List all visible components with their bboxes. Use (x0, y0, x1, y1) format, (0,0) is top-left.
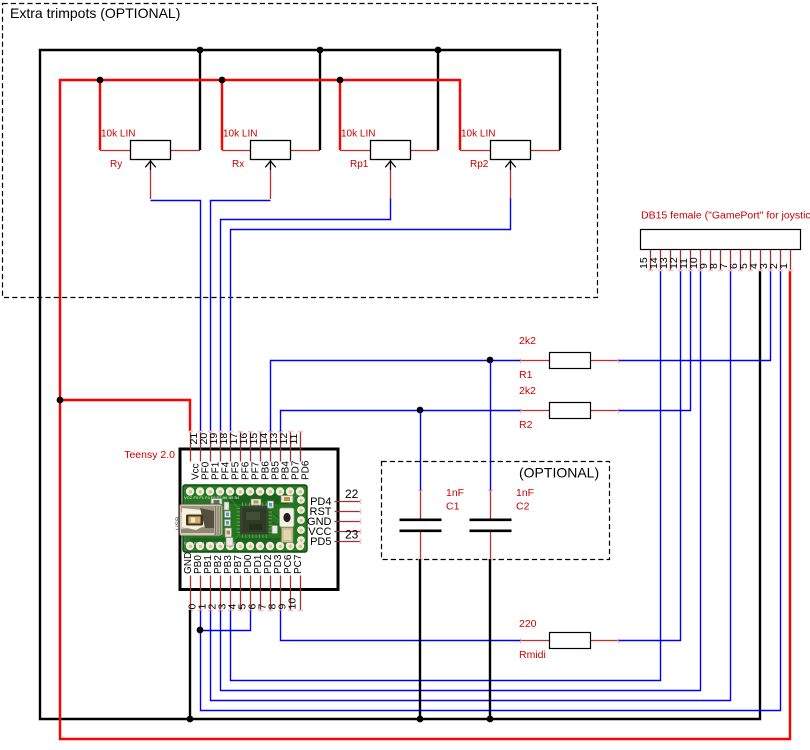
junction on Vcc bus at Ry (97, 77, 104, 84)
pin stub bottom PD2 (270, 576, 272, 611)
junction on GND bus at Rp1 (435, 47, 442, 54)
wire: Teensy PB5 to R1 left (271, 361, 521, 432)
pin stub bottom GND (190, 576, 192, 611)
pin stub DB15 pin 10 (700, 250, 702, 271)
svg-text:DB15 female ("GamePort" for jo: DB15 female ("GamePort" for joystick) (641, 210, 810, 222)
Teensy 2.0 PCB photo (drawn) (175, 485, 307, 552)
trimpot Rp1 (10k LIN trimpot pot1) (340, 141, 438, 200)
trimpot Ry (10k LIN trimpot Y axis) (100, 141, 200, 200)
svg-text:Rmidi: Rmidi (519, 649, 546, 661)
svg-text:(OPTIONAL): (OPTIONAL) (519, 465, 599, 481)
wire: C1 to GND bus (419, 559, 421, 719)
pin stub DB15 pin 9 (710, 250, 712, 271)
svg-text:2k2: 2k2 (519, 385, 536, 397)
wire: R1 right to DB15 pin 3 (619, 271, 771, 361)
svg-text:10: 10 (287, 598, 299, 610)
wire: R1 net down to C2 (490, 361, 492, 491)
svg-text:Teensy 2.0: Teensy 2.0 (124, 449, 175, 461)
wire: PB3 to DB15 pin 14 (231, 271, 661, 681)
pin stub top PB4 (280, 432, 282, 462)
wire: Vcc drop to trimpot Rx (221, 80, 223, 150)
wire: PB2 to DB15 pin 10 (221, 271, 701, 691)
resistor R2 2k2 (pullup Y axis) (520, 403, 619, 419)
junction GND bus at C1 (417, 716, 424, 723)
junction on GND bus at Ry (197, 47, 204, 54)
wire: Rp1 wiper to Teensy PF4 (221, 199, 391, 432)
svg-text:1nF: 1nF (446, 487, 464, 499)
wire: Rx wiper to Teensy PF1 (211, 201, 271, 432)
pin stub bottom PB3 (230, 576, 232, 611)
svg-text:USB: USB (175, 517, 182, 530)
wire: Vcc bus (top horizontal, left vertical, bottom horizontal, to DB15 pin 1) (60, 80, 790, 739)
connector J1 DB15 female GamePort (641, 230, 801, 250)
pin stub bottom PC7 (300, 576, 302, 611)
pin stub DB15 pin 7 (730, 250, 732, 271)
svg-text:10k LIN: 10k LIN (461, 129, 495, 140)
wire: Teensy GND to GND bus (189, 610, 191, 719)
pin stub DB15 pin 11 (690, 250, 692, 271)
wire: Rmidi right to DB15 pin 12 (619, 271, 681, 641)
wire: PD0 joins PB0 net (201, 611, 251, 631)
pin stub top Vcc (190, 432, 192, 462)
pin stub bottom PB0 (200, 576, 202, 611)
pin stub DB15 pin 12 (680, 250, 682, 271)
pin stub top PD6 (300, 432, 302, 462)
pin stub top PF0 (200, 432, 202, 462)
svg-text:R1: R1 (519, 369, 533, 381)
pin stub right RST (335, 511, 361, 513)
svg-text:1: 1 (778, 263, 790, 269)
pin stub DB15 pin 1 (790, 250, 792, 271)
pin stub DB15 pin 3 (770, 250, 772, 271)
wire: Teensy PD3 to Rmidi left (281, 611, 521, 641)
pin stub bottom PD3 (280, 576, 282, 611)
pin stub top PD7 (290, 432, 292, 462)
pin stub right PD4 (335, 501, 361, 503)
svg-text:Rx: Rx (232, 159, 244, 170)
svg-text:PD5: PD5 (310, 536, 331, 548)
pin stub bottom PB1 (210, 576, 212, 611)
pin stub DB15 pin 15 (650, 250, 652, 271)
wire: Rp2 wiper to Teensy PF5 (231, 199, 511, 432)
svg-text:2k2: 2k2 (519, 335, 536, 347)
pin stub top PF6 (240, 432, 242, 462)
pin stub top PB6 (260, 432, 262, 462)
wire: Vcc drop to trimpot Rp1 (339, 80, 341, 150)
wire: GND drop to trimpot Rx (319, 50, 321, 150)
pin stub DB15 pin 8 (720, 250, 722, 271)
junction GND bus at Teensy GND (187, 716, 194, 723)
pin stub top PF7 (250, 432, 252, 462)
svg-text:Ry: Ry (110, 159, 122, 170)
svg-text:Rp1: Rp1 (350, 159, 369, 170)
trimpot Rp2 (10k LIN trimpot pot2) (460, 141, 560, 200)
svg-text:10k LIN: 10k LIN (101, 129, 135, 140)
wire: Teensy PB4 to R2 left (281, 411, 521, 432)
pin stub top PF5 (230, 432, 232, 462)
svg-text:C1: C1 (446, 501, 460, 513)
pin stub DB15 pin 5 (750, 250, 752, 271)
trimpot Rx (10k LIN trimpot X axis) (222, 141, 320, 200)
wire: GND drop to trimpot Ry (199, 50, 201, 150)
pin stub DB15 pin 13 (670, 250, 672, 271)
wire: R2 right to DB15 pin 11 (619, 271, 691, 411)
pin stub bottom PB2 (220, 576, 222, 611)
svg-text:1nF: 1nF (516, 487, 534, 499)
capacitor C1 1nF (Y axis filter) (400, 490, 442, 560)
wire: PB1 to DB15 pin 7 (211, 271, 731, 701)
junction on Vcc bus at Rx (219, 77, 226, 84)
Teensy 2.0 symbol box U1 (180, 449, 338, 590)
svg-text:10k LIN: 10k LIN (341, 129, 375, 140)
junction R1 net / C2 (487, 357, 494, 364)
pin stub top PF4 (220, 432, 222, 462)
pin stub DB15 pin 14 (660, 250, 662, 271)
pin stub bottom PC6 (290, 576, 292, 611)
wire: Vcc drop to trimpot Ry (99, 80, 101, 150)
junction R2 net / C1 (417, 407, 424, 414)
pin stub bottom PD1 (260, 576, 262, 611)
pin stub right PD5 (335, 541, 361, 543)
svg-text:Rp2: Rp2 (470, 159, 489, 170)
junction GND bus at C2 (487, 716, 494, 723)
dashed box: Extra trimpots (OPTIONAL) (3, 4, 598, 298)
junction on Vcc vertical (57, 397, 64, 404)
pin stub bottom PD0 (250, 576, 252, 611)
pin stub DB15 pin 2 (780, 250, 782, 271)
svg-text:10k LIN: 10k LIN (223, 129, 257, 140)
wire: Ry wiper to Teensy PF0 (151, 201, 201, 432)
junction on GND bus at Rx (317, 47, 324, 54)
wire: GND bus (top horizontal, left vertical, bottom horizontal, to DB15 pin 4) (40, 50, 760, 719)
pin stub right GND (335, 521, 361, 523)
capacitor C2 1nF (X axis filter) (470, 490, 512, 560)
svg-text:R2: R2 (519, 419, 533, 431)
svg-text:C2: C2 (516, 501, 530, 513)
wire: C2 to GND bus (489, 559, 491, 719)
svg-text:PC7: PC7 (293, 554, 304, 574)
pin stub right VCC (335, 531, 361, 533)
junction on Vcc bus at Rp1 (337, 77, 344, 84)
junction PB0/PD0 (197, 627, 204, 634)
svg-text:11: 11 (288, 433, 300, 444)
pin stub DB15 pin 6 (740, 250, 742, 271)
pin stub top PB5 (270, 432, 272, 462)
pin stub top PF1 (210, 432, 212, 462)
wire: PB0 to DB15 pin 2 (201, 271, 781, 711)
svg-text:220: 220 (519, 618, 537, 630)
wire: Vcc branch to Teensy Vcc pin (60, 400, 190, 431)
svg-text:PD6: PD6 (301, 460, 312, 480)
resistor R1 2k2 (pullup X axis) (520, 353, 619, 369)
pin stub DB15 pin 4 (760, 250, 762, 271)
wire: R2 net down to C1 (420, 411, 422, 491)
resistor Rmidi 220 (MIDI series resistor) (520, 633, 619, 649)
svg-text:23: 23 (345, 528, 359, 542)
pin stub bottom PB7 (240, 576, 242, 611)
svg-text:22: 22 (345, 487, 359, 501)
svg-text:Extra trimpots (OPTIONAL): Extra trimpots (OPTIONAL) (10, 5, 180, 21)
dashed box: (OPTIONAL) filter capacitors (382, 462, 610, 560)
wire: GND drop to trimpot Rp1 (437, 50, 439, 150)
